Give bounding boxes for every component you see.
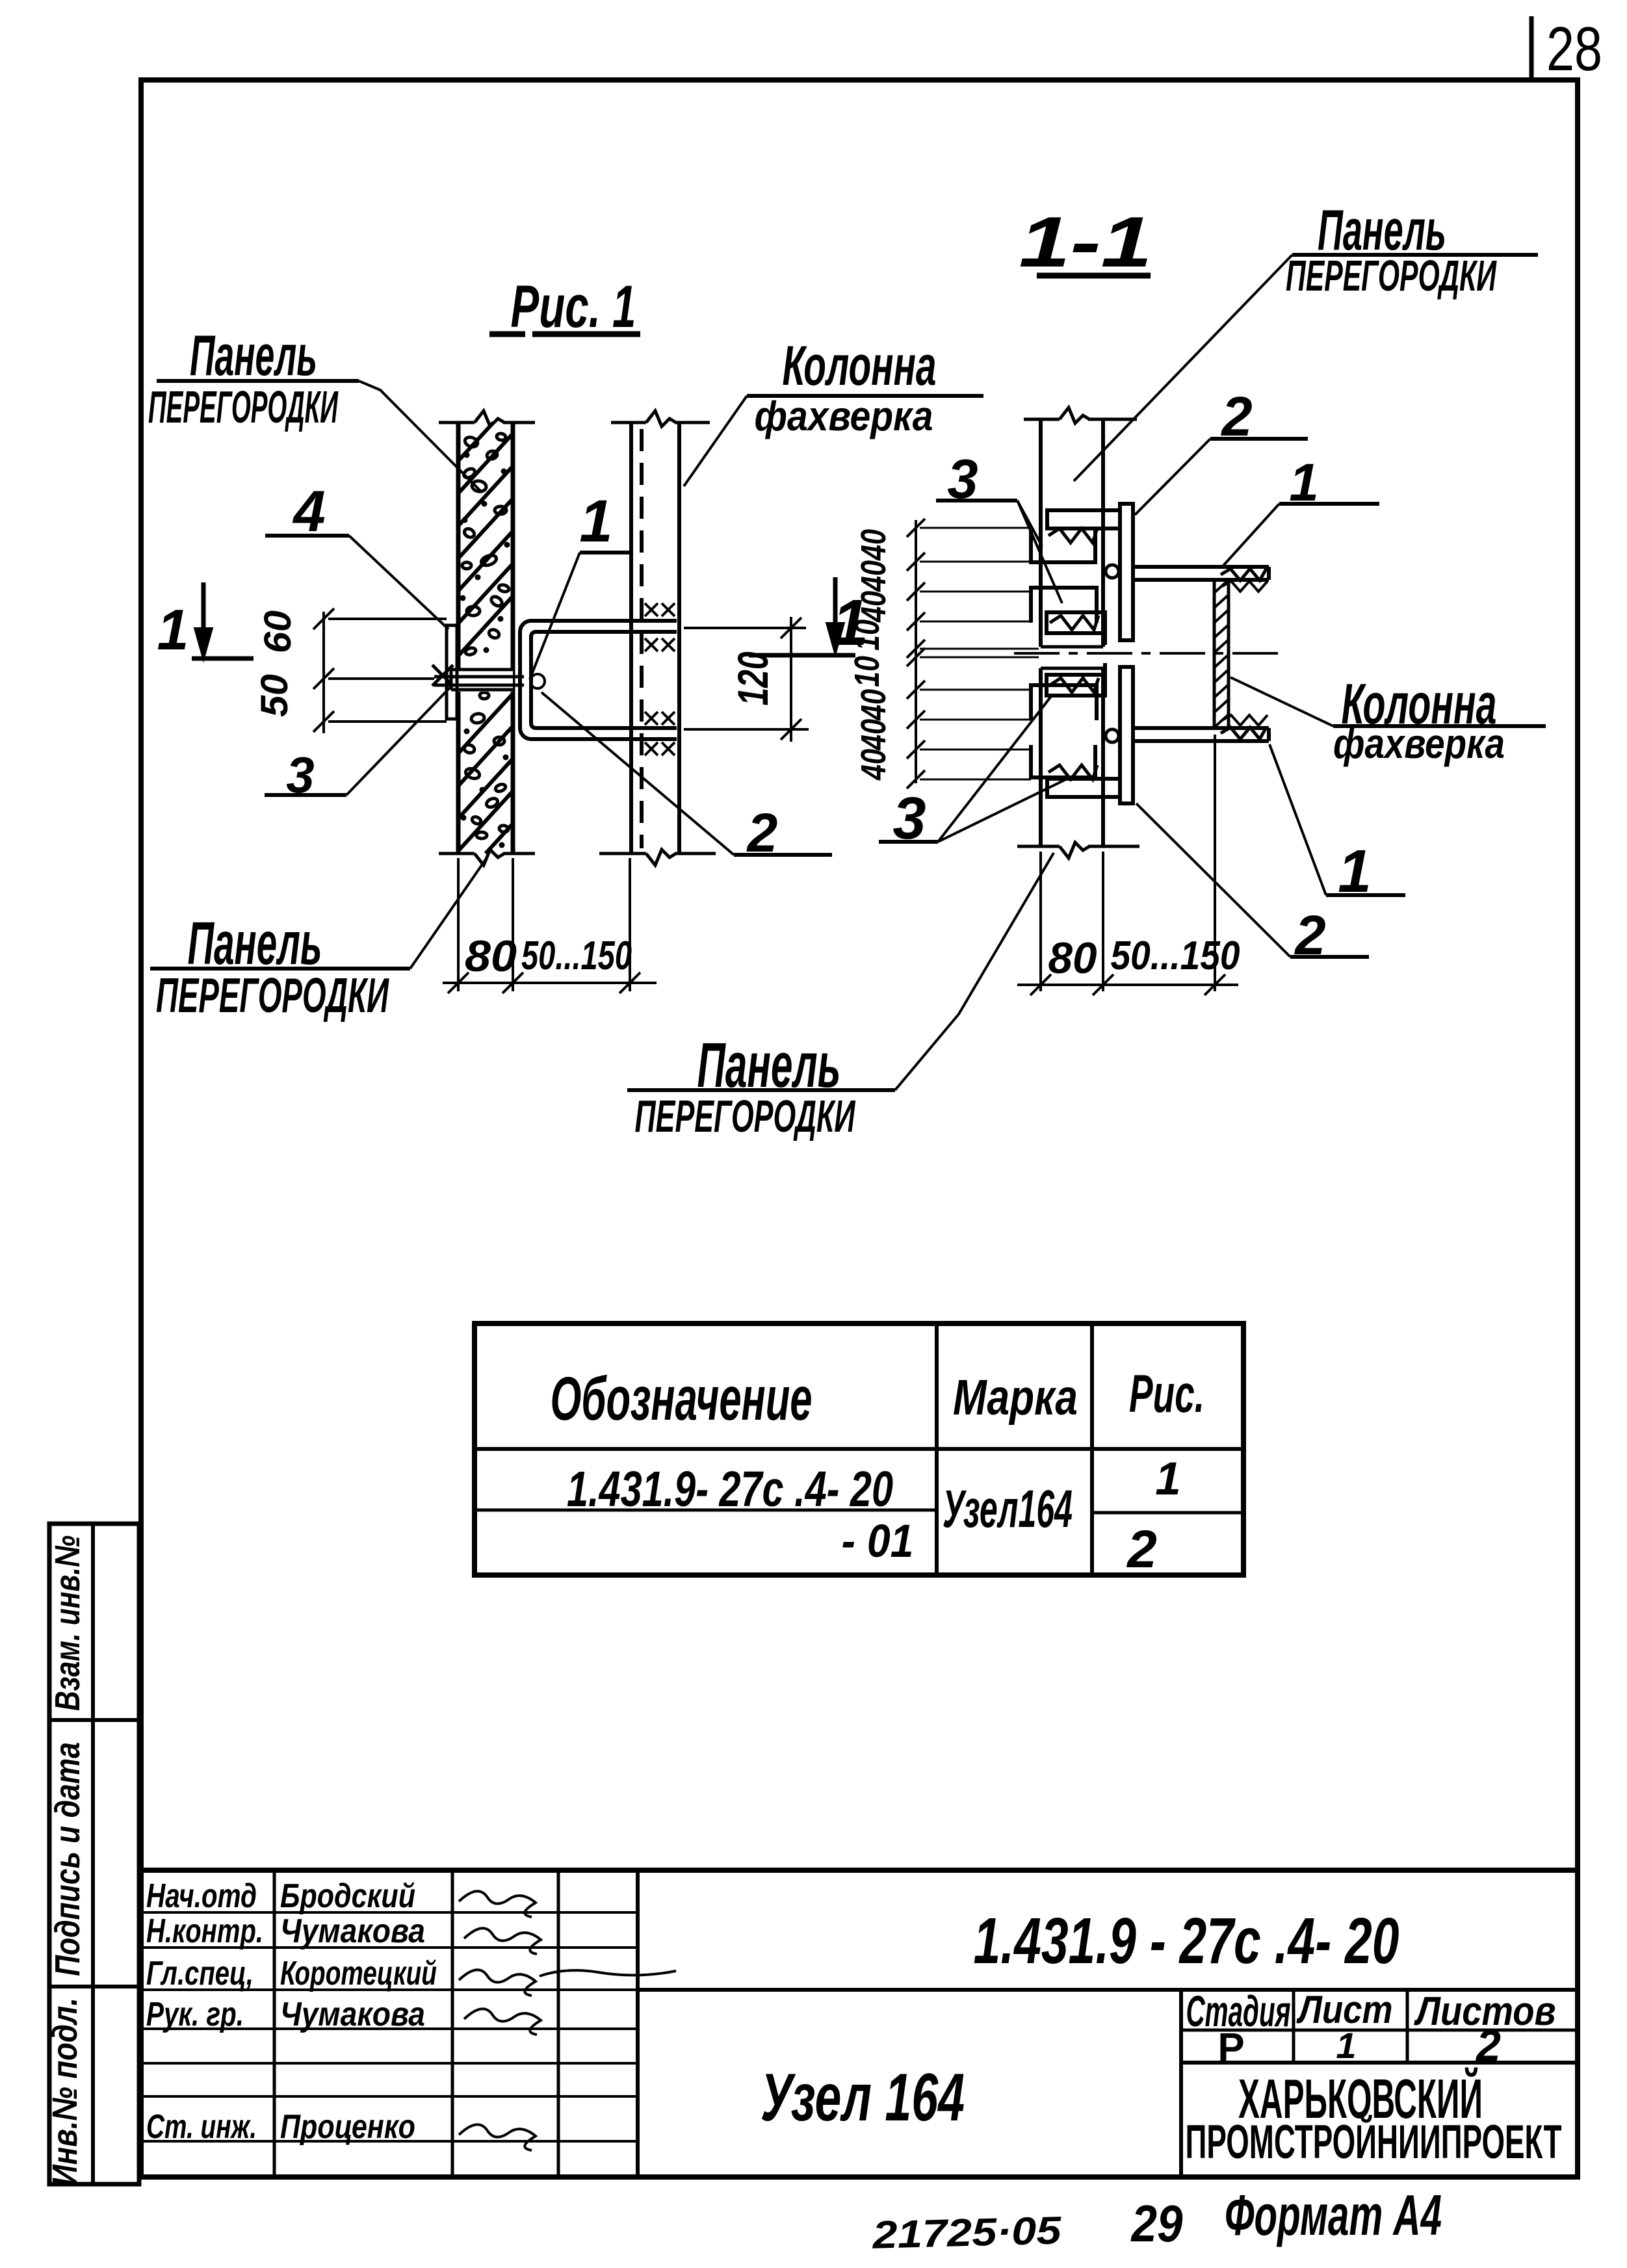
svg-text:Н.контр.: Н.контр. (146, 1912, 263, 1950)
svg-text:1.431.9 - 27с .4- 20: 1.431.9 - 27с .4- 20 (974, 1905, 1399, 1977)
section mark right arrow (749, 653, 855, 658)
panel cutout A (upper) (1031, 530, 1095, 562)
panel top cap with break (439, 421, 475, 424)
svg-text:50: 50 (254, 674, 296, 717)
lower panel edges (1-1) (1039, 668, 1043, 846)
svg-text:Чумакова: Чумакова (280, 1996, 425, 2033)
leader to column (684, 396, 747, 486)
partition panel (Ris.1) edges (456, 423, 461, 854)
svg-text:1: 1 (579, 488, 612, 554)
title block column lines (273, 1870, 276, 2177)
svg-text:Р: Р (1217, 2026, 1244, 2070)
svg-text:40: 40 (854, 719, 893, 751)
svg-text:Подпись и дата: Подпись и дата (48, 1742, 87, 1976)
svg-text:ПЕРЕГОРОДКИ: ПЕРЕГОРОДКИ (635, 1091, 856, 1141)
svg-text:Рук. гр.: Рук. гр. (146, 1996, 244, 2033)
signature tail Gl.spets (540, 1970, 676, 1976)
anchor bar A element 3 (lower) (1047, 779, 1120, 797)
plate element 2 (lower) (1120, 667, 1133, 803)
rod element 1 (upper) (1133, 565, 1269, 569)
svg-text:фахверка: фахверка (1333, 720, 1505, 767)
svg-text:1-1: 1-1 (1019, 202, 1152, 282)
bolt circle (lower) (1106, 729, 1119, 742)
svg-text:Панель: Панель (190, 323, 317, 387)
svg-text:- 01: - 01 (842, 1516, 914, 1567)
panel cutout B (upper) (1031, 588, 1097, 623)
U-rod element 1 outer (520, 621, 677, 739)
vertical before stadiya (1179, 1990, 1183, 2177)
weld marks on column (Ris.1) (645, 603, 658, 616)
svg-text:Коротецкий: Коротецкий (280, 1955, 437, 1992)
svg-text:50...150: 50...150 (1111, 933, 1240, 978)
svg-text:Узел164: Узел164 (943, 1479, 1073, 1539)
reference table frame (475, 1323, 1243, 1575)
dim chain (1-1 left) (915, 520, 917, 783)
svg-text:40: 40 (854, 749, 893, 781)
svg-text:60: 60 (257, 610, 299, 653)
anchor bar B element 3 (lower) (1047, 675, 1105, 696)
svg-text:10: 10 (848, 619, 887, 651)
svg-text:1.431.9- 27с .4- 20: 1.431.9- 27с .4- 20 (567, 1461, 893, 1517)
svg-text:ПРОМСТРОЙНИИПРОЕКТ: ПРОМСТРОЙНИИПРОЕКТ (1186, 2115, 1562, 2169)
bottom dim chain (Ris.1) (457, 858, 460, 991)
panel cutout A (lower) (1031, 745, 1095, 777)
fachwerk column web (1-1) hatched (1213, 579, 1216, 728)
svg-text:40: 40 (854, 591, 893, 623)
svg-text:1: 1 (1336, 2025, 1356, 2066)
svg-text:ПЕРЕГОРОДКИ: ПЕРЕГОРОДКИ (1286, 252, 1497, 300)
fachwerk column hidden dashed line (640, 429, 644, 848)
svg-text:Бродский: Бродский (280, 1877, 415, 1915)
bolt circle (upper) (1106, 565, 1119, 578)
svg-text:10: 10 (848, 656, 887, 687)
anchor end X mark (432, 665, 453, 686)
svg-text:40: 40 (854, 689, 893, 721)
svg-text:Ст. инж.: Ст. инж. (146, 2108, 257, 2146)
panel slot for anchor (451, 668, 513, 692)
svg-text:2: 2 (1126, 1520, 1157, 1579)
big designation line (638, 1988, 1578, 1992)
svg-text:50...150: 50...150 (521, 933, 632, 978)
panel aggregate blobs (463, 436, 479, 449)
signatures (459, 1891, 536, 1917)
joint axis line (1014, 652, 1279, 655)
svg-text:80: 80 (465, 932, 517, 981)
dim line 120 (790, 617, 792, 742)
anchor bar A element 3 (upper) (1047, 510, 1120, 528)
svg-text:28: 28 (1546, 14, 1602, 84)
svg-text:фахверка: фахверка (755, 393, 933, 439)
plate element 4 (Ris.1) (447, 625, 457, 719)
title block top edge (138, 1868, 1580, 1873)
svg-text:Гл.спец,: Гл.спец, (146, 1955, 254, 1992)
lower panel bottom cap with break (1017, 845, 1060, 848)
title block row lines (141, 1911, 638, 1914)
fachwerk column (Ris.1) left edge (629, 423, 633, 854)
svg-text:Нач.отд: Нач.отд (146, 1877, 257, 1915)
svg-text:Инв.№ подл.: Инв.№ подл. (46, 1998, 85, 2186)
svg-text:Марка: Марка (953, 1370, 1078, 1426)
svg-text:ПЕРЕГОРОДКИ: ПЕРЕГОРОДКИ (148, 382, 339, 432)
svg-text:Чумакова: Чумакова (280, 1912, 425, 1950)
anchor bar B element 3 (upper) (1047, 612, 1105, 633)
rod element 1 (lower) (1133, 739, 1269, 743)
svg-text:1: 1 (1155, 1453, 1181, 1505)
svg-text:Обозначение: Обозначение (551, 1364, 813, 1433)
weld at column bottom flange (1222, 715, 1268, 725)
upper panel top cap with break (1024, 418, 1060, 421)
bolt at U-rod (530, 674, 545, 688)
svg-text:Колонна: Колонна (783, 335, 937, 397)
weld at column top flange (1222, 581, 1268, 592)
dim line 60/50 (322, 612, 325, 733)
bottom dim chain (1-1) (1039, 852, 1042, 991)
svg-text:40: 40 (854, 560, 893, 592)
plate element 2 (upper) (1120, 504, 1133, 640)
svg-text:Узел 164: Узел 164 (761, 2060, 965, 2135)
U-rod element 1 inner (531, 632, 677, 728)
svg-text:120: 120 (729, 651, 777, 705)
svg-text:40: 40 (854, 529, 893, 561)
fachwerk column right edge (677, 423, 681, 854)
svg-text:Рис.: Рис. (1129, 1364, 1204, 1424)
panel concrete hatch (458, 423, 493, 461)
column bottom cap with break (599, 852, 646, 855)
section mark left arrow (202, 582, 206, 631)
svg-text:ПЕРЕГОРОДКИ: ПЕРЕГОРОДКИ (156, 968, 389, 1023)
left stamp strip (49, 1524, 139, 2184)
column top cap with break (611, 421, 646, 424)
svg-text:Проценко: Проценко (280, 2108, 415, 2146)
upper panel edges (1-1) (1039, 419, 1043, 647)
svg-text:29: 29 (1130, 2195, 1183, 2252)
svg-text:1: 1 (157, 597, 189, 662)
panel bottom cap with break (439, 852, 475, 855)
panel cutout B (lower) (1031, 685, 1097, 720)
svg-text:80: 80 (1048, 933, 1097, 983)
svg-text:Формат А4: Формат А4 (1225, 2183, 1442, 2247)
svg-text:2: 2 (1475, 2021, 1501, 2070)
svg-text:Взам. инв.№: Взам. инв.№ (48, 1535, 87, 1711)
leader to panel (359, 381, 482, 493)
anchor rod element 3 (Ris.1) (434, 675, 524, 679)
svg-text:Рис. 1: Рис. 1 (511, 274, 636, 340)
svg-text:21725·05: 21725·05 (871, 2208, 1063, 2257)
